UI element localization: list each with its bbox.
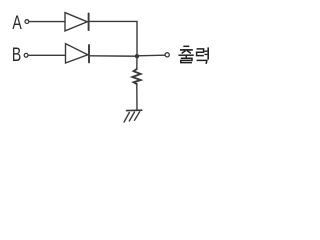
output label 출력 (drawn as paths) <box>179 46 209 64</box>
력 vowel yeo tick 2 <box>204 53 207 55</box>
출 chieut left leg <box>182 51 186 54</box>
출 chieut right leg <box>187 51 191 54</box>
ground hatch 1 <box>135 112 140 121</box>
출 vowel u stem <box>185 55 187 57</box>
력 final giyeok <box>197 60 207 64</box>
resistor R1 zigzag <box>132 69 140 84</box>
wire D1 to corner <box>90 20 138 22</box>
diode D2 triangle <box>66 44 88 63</box>
wire D2 to junction <box>90 55 137 57</box>
svg-text:B: B <box>12 44 21 66</box>
wire resistor to ground <box>136 84 138 110</box>
input terminal B <box>24 53 28 57</box>
출 top tick of chieut <box>183 45 189 47</box>
wire B input to diode D2 <box>29 54 66 56</box>
wire junction to output terminal <box>137 54 165 57</box>
력 rieul block <box>197 49 204 56</box>
ground hatch 2 <box>129 112 134 121</box>
wire A input to diode D1 <box>29 21 65 23</box>
ground hatch 3 <box>124 113 129 123</box>
출 rieul block <box>181 58 192 62</box>
력 vowel yeo tick 1 <box>204 50 207 52</box>
출 chieut horizontal stroke <box>180 49 193 51</box>
diode D1 triangle <box>65 13 87 31</box>
diode D1 cathode bar <box>88 14 90 31</box>
력 vowel yeo vertical <box>207 47 209 59</box>
svg-text:A: A <box>12 12 22 34</box>
wire vertical drop corner to junction <box>136 21 138 56</box>
wire junction down to resistor <box>136 56 138 69</box>
diode D2 cathode bar <box>88 45 90 62</box>
input terminal A <box>25 20 29 24</box>
output terminal <box>165 53 169 57</box>
node junction <box>135 54 139 58</box>
ground bar <box>127 109 142 111</box>
출 vowel u horizontal <box>179 54 194 56</box>
